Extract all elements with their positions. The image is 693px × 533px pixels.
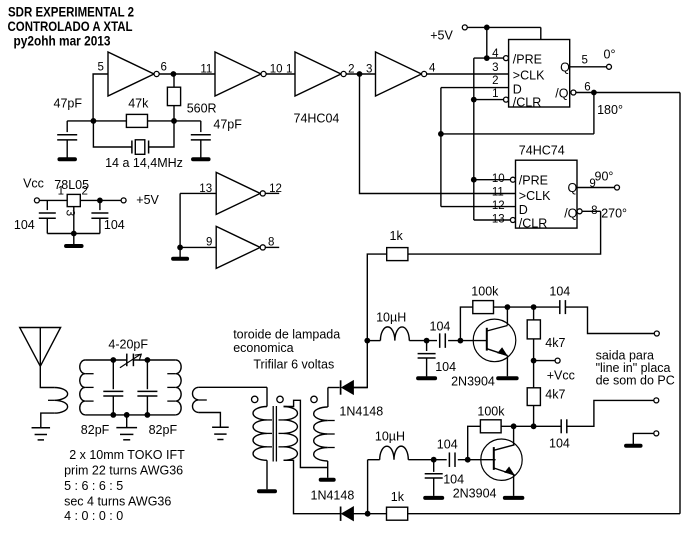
svg-text:1N4148: 1N4148 (311, 489, 355, 503)
svg-text:1: 1 (286, 64, 292, 76)
svg-text:4: 4 (492, 48, 499, 60)
svg-text:+Vcc: +Vcc (547, 369, 575, 383)
svg-text:104: 104 (435, 360, 456, 374)
svg-text:104: 104 (549, 437, 570, 451)
svg-text:47pF: 47pF (54, 97, 83, 111)
svg-text:5: 5 (582, 55, 588, 67)
svg-text:/Q: /Q (555, 87, 568, 101)
svg-text:104: 104 (549, 285, 570, 299)
svg-text:+5V: +5V (136, 193, 159, 207)
svg-text:10µH: 10µH (375, 430, 405, 444)
svg-text:4k7: 4k7 (545, 388, 565, 402)
svg-text:Trifilar 6 voltas: Trifilar 6 voltas (253, 358, 334, 372)
svg-text:6: 6 (584, 82, 590, 94)
svg-text:3: 3 (366, 64, 372, 76)
svg-text:/PRE: /PRE (519, 174, 548, 188)
svg-text:12: 12 (492, 200, 505, 212)
svg-text:104: 104 (430, 320, 451, 334)
svg-text:8: 8 (268, 237, 274, 249)
svg-text:104: 104 (443, 473, 464, 487)
svg-text:5 : 6 : 6 : 5: 5 : 6 : 6 : 5 (64, 479, 123, 493)
svg-text:270°: 270° (601, 207, 627, 221)
svg-text:74HC04: 74HC04 (294, 112, 340, 126)
svg-text:1: 1 (58, 186, 64, 198)
svg-text:/PRE: /PRE (513, 53, 542, 67)
svg-text:2: 2 (492, 75, 498, 87)
svg-text:8: 8 (591, 205, 597, 217)
svg-text:104: 104 (14, 218, 35, 232)
svg-text:prim 22 turns AWG36: prim 22 turns AWG36 (64, 464, 183, 478)
svg-text:3: 3 (64, 210, 78, 217)
svg-text:py2ohh mar 2013: py2ohh mar 2013 (14, 33, 111, 49)
svg-text:2N3904: 2N3904 (451, 375, 495, 389)
svg-text:/CLR: /CLR (513, 96, 541, 110)
svg-text:47k: 47k (128, 97, 149, 111)
svg-text:3: 3 (492, 62, 498, 74)
svg-text:4-20pF: 4-20pF (108, 338, 148, 352)
svg-text:104: 104 (437, 438, 458, 452)
svg-text:/CLR: /CLR (519, 217, 547, 231)
svg-text:47pF: 47pF (213, 118, 242, 132)
svg-text:D: D (513, 83, 522, 97)
svg-text:1N4148: 1N4148 (339, 405, 383, 419)
svg-text:6: 6 (161, 62, 167, 74)
svg-text:>CLK: >CLK (519, 189, 551, 203)
svg-text:82pF: 82pF (149, 423, 178, 437)
svg-text:12: 12 (269, 183, 282, 195)
svg-text:Q: Q (560, 61, 570, 75)
svg-text:2: 2 (82, 186, 88, 198)
svg-text:4: 4 (429, 63, 436, 75)
svg-text:Q: Q (568, 181, 578, 195)
svg-text:9: 9 (206, 237, 212, 249)
svg-text:economica: economica (233, 341, 293, 355)
svg-text:+5V: +5V (430, 29, 453, 43)
svg-text:2N3904: 2N3904 (453, 487, 497, 501)
svg-text:11: 11 (492, 187, 504, 199)
svg-text:13: 13 (492, 214, 505, 226)
svg-text:10µH: 10µH (376, 311, 406, 325)
svg-text:de som do PC: de som do PC (596, 374, 675, 388)
svg-text:180°: 180° (597, 103, 623, 117)
svg-text:D: D (519, 203, 528, 217)
svg-text:4k7: 4k7 (545, 336, 565, 350)
svg-text:1: 1 (492, 88, 498, 100)
svg-text:90°: 90° (595, 170, 614, 184)
svg-text:100k: 100k (471, 285, 499, 299)
svg-text:100k: 100k (477, 405, 505, 419)
svg-text:/Q: /Q (564, 207, 577, 221)
svg-text:13: 13 (199, 183, 212, 195)
svg-text:5: 5 (98, 62, 104, 74)
svg-text:Vcc: Vcc (23, 177, 44, 191)
svg-text:2: 2 (348, 64, 354, 76)
svg-text:560R: 560R (187, 101, 217, 115)
svg-text:10: 10 (492, 173, 505, 185)
svg-text:1k: 1k (391, 490, 405, 504)
svg-text:>CLK: >CLK (513, 69, 545, 83)
svg-text:4 : 0 : 0 : 0: 4 : 0 : 0 : 0 (64, 509, 123, 523)
svg-text:0°: 0° (604, 48, 616, 62)
svg-text:104: 104 (104, 218, 125, 232)
svg-text:74HC74: 74HC74 (519, 144, 565, 158)
svg-text:2 x 10mm TOKO IFT: 2 x 10mm TOKO IFT (69, 448, 185, 462)
svg-text:toroide de lampada: toroide de lampada (233, 328, 340, 342)
svg-text:14 a 14,4MHz: 14 a 14,4MHz (105, 156, 183, 170)
svg-text:sec 4 turns AWG36: sec 4 turns AWG36 (64, 495, 171, 509)
svg-text:82pF: 82pF (81, 423, 110, 437)
svg-text:10: 10 (270, 64, 283, 76)
svg-text:1k: 1k (390, 229, 404, 243)
svg-text:11: 11 (200, 64, 212, 76)
